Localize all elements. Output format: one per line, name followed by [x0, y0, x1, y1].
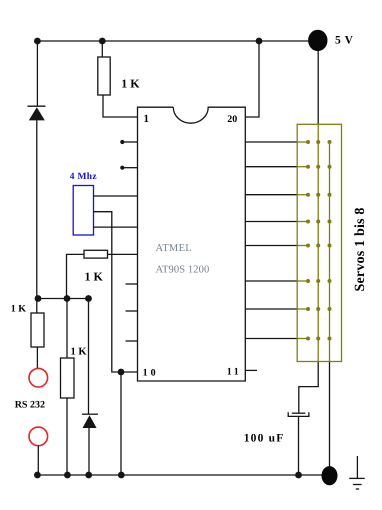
- svg-text:1 K: 1 K: [121, 76, 140, 90]
- wire R4 to bottom rail: [66, 398, 68, 475]
- wire header stub row 1: [297, 141, 308, 143]
- svg-text:11: 11: [227, 367, 241, 378]
- junction mid R4: [64, 295, 71, 302]
- crystal Q1 4 MHz: [73, 186, 93, 236]
- resistor R3 1K horizontal: [84, 250, 108, 258]
- svg-text:4 Mhz: 4 Mhz: [70, 172, 98, 182]
- IC U1 AT90S1200 outline: [138, 107, 246, 381]
- wire header ground column down: [329, 362, 331, 467]
- wire servo signal pin 13: [245, 308, 297, 310]
- junction top R1: [99, 38, 106, 45]
- header pin dots row 5: [306, 244, 332, 248]
- wire header stub row 2: [297, 166, 308, 168]
- wire capacitor to bottom rail: [298, 416, 300, 475]
- header pins (olive dots): [306, 140, 332, 341]
- ground symbol: [349, 456, 365, 489]
- wire RS232 pin2 to bottom rail: [37, 446, 39, 475]
- svg-text:5 V: 5 V: [335, 35, 354, 47]
- junction bottom rail left: [34, 472, 41, 479]
- wire servo signal pin 15: [245, 245, 297, 247]
- junction bottom D2: [85, 472, 92, 479]
- RS232 pin 2: [29, 427, 48, 446]
- chip pin stub left lower 2: [126, 310, 138, 312]
- wire header stub row 5: [297, 245, 308, 247]
- junction top pin20 branch: [256, 38, 263, 45]
- svg-text:1 K: 1 K: [85, 270, 104, 284]
- svg-text:1: 1: [144, 113, 150, 125]
- wire R3 left lead down: [67, 254, 85, 298]
- wire pin10 node to bottom rail: [120, 372, 122, 475]
- svg-text:RS 232: RS 232: [15, 400, 45, 411]
- header pin dots row 2: [306, 165, 332, 169]
- wire servo signal pin 14: [245, 280, 297, 282]
- chip pin stub left lower 3: [126, 340, 138, 342]
- resistor R4 1K: [61, 358, 75, 398]
- servo header J1 box: [297, 124, 341, 361]
- wire top rail to chip pin 20: [245, 41, 259, 117]
- svg-text:1 K: 1 K: [11, 303, 27, 314]
- header column 2 bus (+5V): [317, 124, 319, 361]
- svg-text:1 K: 1 K: [71, 347, 88, 358]
- junction pin10: [118, 369, 125, 376]
- svg-text:100 uF: 100 uF: [244, 432, 285, 444]
- svg-text:20: 20: [227, 114, 237, 125]
- junction bottom capacitor: [295, 472, 302, 479]
- header pin dots row 3: [306, 193, 332, 197]
- wire chip pin 11 stub: [245, 369, 257, 371]
- header column 3 bus (GND): [329, 142, 331, 362]
- header pin dots row 6: [306, 279, 332, 283]
- wire 5V terminal to servo header: [317, 51, 319, 125]
- wire resistor R1 top lead: [101, 41, 103, 57]
- wire node to R4: [66, 299, 68, 359]
- svg-text:AT90S 1200: AT90S 1200: [156, 264, 210, 275]
- resistor R1 1K: [98, 57, 110, 95]
- wire servo signal pin 18: [245, 166, 297, 168]
- junction top-left: [34, 38, 41, 45]
- wire servo signal pin 16: [245, 221, 297, 223]
- wire servo signal pin 12: [245, 338, 297, 340]
- diode D1: [28, 106, 46, 313]
- wire R1 to chip pin 1: [103, 95, 138, 117]
- capacitor C1 100uF: [288, 412, 309, 416]
- wire R3 right to chip: [108, 253, 138, 255]
- wire servo signal pin 17: [245, 194, 297, 196]
- svg-text:10: 10: [143, 367, 159, 378]
- wire crystal XTAL1 to chip: [94, 195, 138, 197]
- wire top rail 5V: [37, 40, 310, 42]
- wire servo signal pin 19: [245, 141, 297, 143]
- wire mid-left horizontal: [37, 298, 88, 300]
- svg-text:Servos 1 bis 8: Servos 1 bis 8: [353, 207, 368, 291]
- junction bottom R4: [64, 472, 71, 479]
- ground terminal: [322, 466, 338, 485]
- wire header stub row 8: [297, 338, 308, 340]
- header pin dots row 4: [306, 220, 332, 224]
- header pin dots row 8: [306, 337, 332, 341]
- wire header stub row 4: [297, 221, 308, 223]
- junction mid-left rail: [35, 295, 42, 302]
- wire header stub row 3: [297, 194, 308, 196]
- junction bottom pin10: [118, 472, 125, 479]
- wire header +5V column to capacitor: [299, 362, 318, 414]
- chip pin stub left lower 1: [126, 283, 138, 285]
- chip pin stub left with dot (pin 3): [120, 166, 137, 170]
- wire bottom rail: [37, 474, 322, 476]
- wire chip pin 10 stub: [121, 371, 138, 373]
- wire header stub row 7: [297, 308, 308, 310]
- wire crystal case to ground line: [94, 212, 122, 372]
- wire node to diode D2: [88, 299, 90, 415]
- junction mid D2: [85, 295, 92, 302]
- 5V terminal: [308, 30, 327, 51]
- diode D2: [82, 414, 98, 475]
- chip pin stub left with dot (pin 2): [120, 140, 137, 144]
- svg-text:ATMEL: ATMEL: [156, 243, 193, 254]
- header pin dots row 7: [306, 307, 332, 311]
- resistor R2 1K: [31, 313, 44, 347]
- wire header stub row 6: [297, 280, 308, 282]
- wire left rail upper: [36, 41, 38, 106]
- wire R2 to RS232 pin1: [36, 347, 38, 369]
- RS232 pin 1: [29, 368, 48, 387]
- wire crystal XTAL2 to chip: [94, 226, 138, 228]
- header pin dots row 1: [306, 140, 332, 144]
